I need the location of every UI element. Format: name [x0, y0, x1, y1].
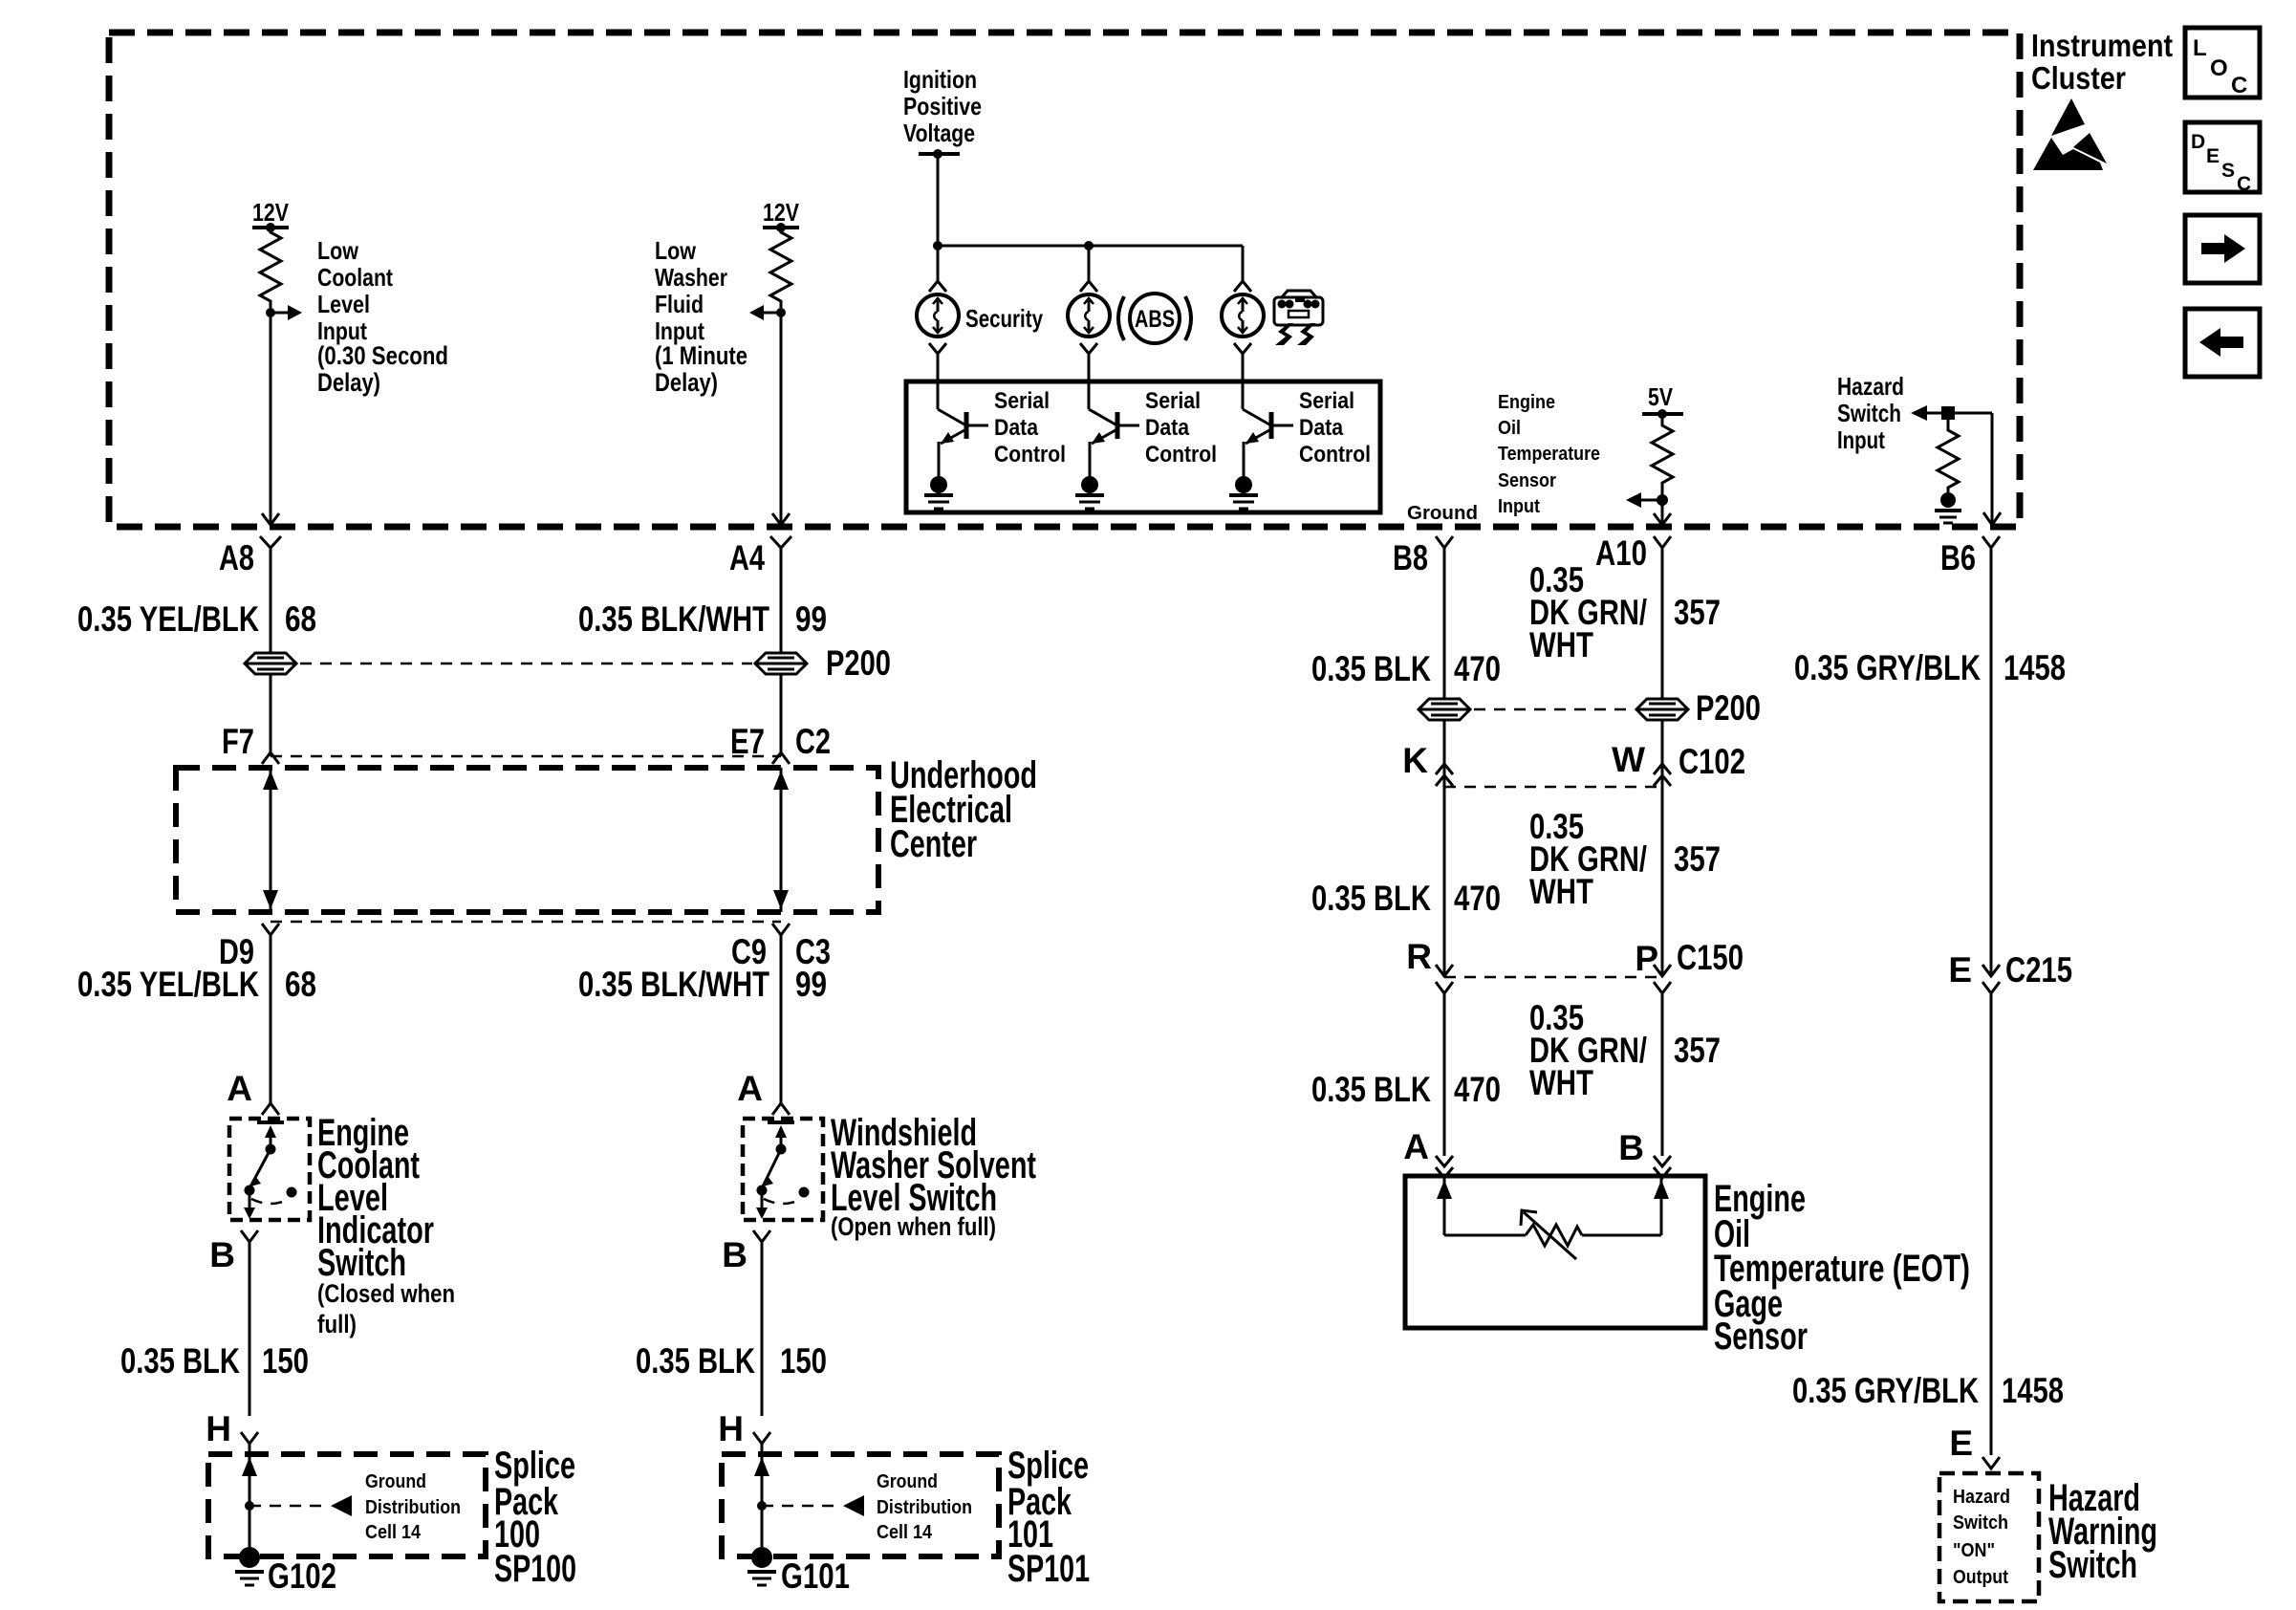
label: Engine Oil Temperature Sensor Input [1498, 392, 1600, 517]
svg-text:0.35 BLK: 0.35 BLK [120, 1341, 240, 1381]
svg-text:Serial: Serial [1145, 388, 1201, 414]
svg-text:Serial: Serial [1299, 388, 1354, 414]
svg-text:full): full) [317, 1310, 357, 1338]
svg-text:B6: B6 [1940, 538, 1976, 577]
node: low washer fluid input [749, 305, 786, 320]
svg-text:WHT: WHT [1529, 872, 1593, 911]
svg-text:0.35 GRY/BLK: 0.35 GRY/BLK [1792, 1371, 1979, 1410]
svg-text:Hazard: Hazard [1837, 372, 1904, 401]
svg-text:Switch: Switch [317, 1242, 406, 1284]
svg-text:L: L [2193, 35, 2207, 61]
svg-text:Level: Level [317, 290, 370, 318]
svg-text:Sensor: Sensor [1714, 1316, 1808, 1358]
svg-text:P200: P200 [1696, 688, 1761, 728]
dashed link P200 [300, 663, 752, 665]
svg-text:C: C [2237, 173, 2251, 195]
resistor (hazard pull-up) [1938, 413, 1959, 492]
svg-text:Coolant: Coolant [317, 263, 393, 292]
engine coolant level indicator switch box [229, 1119, 310, 1220]
label: Ignition Positive Voltage [903, 65, 982, 147]
pin A (coolant switch) [227, 1069, 279, 1115]
svg-text:Ground: Ground [1407, 503, 1478, 524]
wire: grommet to C102 (BLK) [1443, 720, 1446, 787]
label: Hazard Warning Switch [2048, 1477, 2157, 1586]
svg-text:68: 68 [285, 965, 316, 1004]
svg-text:Ground: Ground [365, 1471, 426, 1492]
pin E (hazard warning switch) [1949, 1424, 2000, 1469]
wire: C150 to EOT B (GRN) [1661, 993, 1664, 1156]
wire: lamp supply bus [933, 241, 1243, 250]
svg-text:B: B [1618, 1128, 1644, 1167]
svg-text:0.35 BLK/WHT: 0.35 BLK/WHT [578, 599, 769, 639]
connector C3 row (D9 / C9) [219, 922, 831, 971]
svg-text:Temperature: Temperature [1498, 444, 1600, 465]
label: Low Coolant Level Input [317, 236, 448, 397]
serial data control box [906, 381, 1380, 512]
svg-text:Ignition: Ignition [903, 65, 977, 94]
svg-text:Cell 14: Cell 14 [877, 1522, 933, 1543]
svg-text:D: D [2191, 131, 2205, 153]
wire: grommet to C102 (GRN) [1661, 720, 1664, 787]
svg-text:470: 470 [1454, 649, 1501, 688]
svg-text:Cluster: Cluster [2031, 60, 2126, 96]
wire: C102 to C150 (BLK) [1443, 787, 1446, 977]
svg-text:Control: Control [1145, 442, 1217, 468]
12V supply (coolant branch) [252, 198, 290, 232]
svg-text:357: 357 [1674, 593, 1721, 632]
wire: D9 to coolant switch [270, 935, 272, 1103]
label: serial data control 2 [1145, 388, 1217, 468]
svg-text:ABS: ABS [1135, 306, 1175, 333]
label: Splice Pack 101 SP101 [1007, 1445, 1090, 1590]
svg-text:Switch: Switch [1837, 399, 1901, 427]
svg-text:B8: B8 [1393, 538, 1428, 577]
svg-text:E: E [2206, 145, 2220, 167]
wire: 0.35 BLK/WHT 99 upper [780, 548, 783, 653]
connector B6 (cluster) [1940, 536, 2000, 577]
ground (ABS driver) [1075, 476, 1104, 509]
svg-text:Output: Output [1953, 1567, 2008, 1588]
washer switch internals [756, 1122, 810, 1219]
svg-text:1458: 1458 [2002, 1371, 2064, 1410]
svg-text:R: R [1406, 937, 1432, 976]
label: Splice Pack 100 SP100 [494, 1445, 576, 1590]
svg-text:357: 357 [1674, 839, 1721, 879]
svg-text:Low: Low [655, 236, 697, 265]
svg-text:99: 99 [795, 599, 827, 639]
label: 0.35 DK GRN/WHT 357 (3) [1529, 998, 1721, 1102]
svg-text:Instrument: Instrument [2031, 28, 2173, 63]
svg-text:Data: Data [1299, 415, 1344, 441]
resistor (low coolant pull-up) [260, 228, 281, 308]
coolant switch internals [244, 1122, 297, 1219]
engine oil temperature gage sensor box [1405, 1176, 1705, 1328]
instrument cluster label [2031, 28, 2173, 96]
svg-text:G101: G101 [781, 1556, 850, 1596]
node: EOT sensor input [1626, 492, 1668, 508]
svg-text:C150: C150 [1677, 938, 1744, 977]
ground (hazard pull-up) [1935, 492, 1961, 523]
label: Engine Oil Temperature (EOT) Gage Sensor [1714, 1178, 1970, 1358]
label: 0.35 YEL/BLK 68 lower [77, 965, 316, 1004]
svg-text:O: O [2210, 55, 2228, 81]
resistor (low washer pull-up) [770, 228, 791, 308]
hazard switch input node [1911, 405, 1992, 421]
label: Low Washer Fluid Input [655, 236, 747, 397]
transistor (security driver) [938, 409, 988, 477]
label: 0.35 GRY/BLK 1458 (1) [1794, 648, 2066, 687]
svg-text:(Open when full): (Open when full) [831, 1212, 996, 1241]
pin H (splice pack 100) [206, 1409, 258, 1448]
svg-text:12V: 12V [252, 198, 290, 227]
wire: B6 down to C215 [1990, 548, 1993, 976]
svg-text:12V: 12V [763, 198, 800, 227]
pin H (splice pack 101) [718, 1409, 770, 1448]
svg-text:Fluid: Fluid [655, 290, 704, 318]
svg-text:Distribution: Distribution [365, 1497, 461, 1518]
svg-text:470: 470 [1454, 1070, 1501, 1109]
connector A4 (cluster) [729, 536, 791, 577]
svg-text:Low: Low [317, 236, 359, 265]
label: Windshield Washer Solvent Level Switch [831, 1112, 1036, 1241]
connector C150 row (R / P) [1406, 937, 1744, 993]
transistor (traction driver) [1243, 409, 1293, 477]
svg-text:Hazard: Hazard [1953, 1487, 2010, 1508]
svg-text:Delay): Delay) [317, 368, 380, 397]
wire: traction lamp to transistor [1234, 343, 1251, 409]
connector B8 (cluster ground) [1393, 536, 1453, 577]
EOT sensor internals [1437, 1178, 1669, 1259]
svg-text:Serial: Serial [994, 388, 1050, 414]
svg-text:A: A [1403, 1127, 1429, 1166]
label: 0.35 BLK 150 (right) [636, 1341, 827, 1381]
resistor (EOT pull-up) [1652, 414, 1673, 495]
svg-text:Cell 14: Cell 14 [365, 1522, 422, 1543]
wire: 0.35 YEL/BLK 68 upper [270, 548, 272, 653]
pin A (EOT sensor) [1403, 1127, 1453, 1178]
ESD symbol [2033, 98, 2107, 170]
wire: A10 down [1661, 548, 1664, 699]
connector C2 row (F7 / E7) [222, 722, 831, 764]
12V supply (washer branch) [763, 198, 800, 232]
svg-text:W: W [1612, 740, 1645, 779]
svg-text:"ON": "ON" [1953, 1540, 1995, 1561]
label: 0.35 BLK 470 (3) [1311, 1070, 1501, 1109]
label: 0.35 BLK 470 (2) [1311, 879, 1501, 918]
svg-text:F7: F7 [222, 722, 254, 761]
label: 0.35 BLK 470 (1) [1311, 649, 1501, 688]
svg-text:A8: A8 [219, 538, 254, 577]
wire: hazard input to B6 [1983, 413, 2001, 525]
connector A10 (cluster) [1595, 533, 1671, 573]
svg-text:C: C [2231, 73, 2247, 98]
label: serial data control 3 [1299, 388, 1371, 468]
instrument cluster dashed box [109, 33, 2020, 527]
wire: drop to traction lamp [1234, 246, 1251, 292]
hazard warning switch dashed box [1939, 1473, 2039, 1601]
svg-text:WHT: WHT [1529, 1063, 1593, 1102]
svg-text:P200: P200 [826, 643, 891, 683]
svg-text:(1 Minute: (1 Minute [655, 341, 747, 370]
wire: drop to security lamp [929, 246, 946, 292]
wire: 0.35 BLK 150 (left) [249, 1242, 251, 1416]
svg-text:Oil: Oil [1498, 418, 1521, 439]
wire: ground B8 down [1443, 548, 1446, 699]
underhood electrical center dashed box [176, 768, 878, 912]
wire through UEC (right) [773, 768, 789, 912]
wire: C215 to hazard warning switch [1990, 993, 1993, 1455]
DESC legend box [2185, 122, 2260, 195]
svg-text:Engine: Engine [1498, 392, 1555, 413]
transistor (ABS driver) [1089, 409, 1139, 477]
svg-text:E: E [1948, 950, 1972, 990]
svg-text:A: A [227, 1069, 252, 1108]
indicator lamp (traction control) [1222, 294, 1264, 337]
svg-text:C215: C215 [2005, 950, 2072, 990]
svg-text:B: B [722, 1235, 747, 1274]
svg-text:Positive: Positive [903, 92, 982, 120]
label: 0.35 YEL/BLK 68 [77, 599, 316, 639]
svg-text:Data: Data [994, 415, 1039, 441]
svg-text:Control: Control [994, 442, 1066, 468]
wire: C150 to EOT A (BLK) [1443, 993, 1446, 1156]
svg-text:Sensor: Sensor [1498, 470, 1556, 491]
svg-text:357: 357 [1674, 1031, 1721, 1070]
svg-text:Input: Input [1837, 425, 1885, 454]
wire through UEC (left) [263, 768, 278, 912]
svg-text:0.35 BLK: 0.35 BLK [1311, 649, 1431, 688]
ground G102 [235, 1547, 336, 1596]
pin A (washer switch) [737, 1069, 790, 1115]
svg-text:Distribution: Distribution [877, 1497, 972, 1518]
svg-text:Switch: Switch [1953, 1512, 2008, 1534]
traction control car icon [1274, 291, 1323, 345]
ground G101 [747, 1547, 850, 1596]
svg-text:0.35 YEL/BLK: 0.35 YEL/BLK [77, 965, 259, 1004]
splice pack 101 dashed box [722, 1454, 999, 1556]
5V supply [1642, 382, 1683, 419]
label: Ground Distribution Cell 14 (left) [365, 1471, 461, 1543]
svg-text:A: A [737, 1069, 763, 1108]
wire: coolant input to A8 [262, 313, 279, 525]
svg-text:Control: Control [1299, 442, 1371, 468]
label: Underhood Electrical Center [890, 754, 1037, 865]
ABS icon [1118, 294, 1191, 343]
svg-text:0.35 YEL/BLK: 0.35 YEL/BLK [77, 599, 259, 639]
svg-text:1458: 1458 [2004, 648, 2066, 687]
svg-text:0.35 BLK: 0.35 BLK [1311, 879, 1431, 918]
svg-text:(0.30 Second: (0.30 Second [317, 341, 448, 370]
splice pack 100 dashed box [208, 1454, 486, 1556]
svg-text:E: E [1949, 1424, 1973, 1463]
svg-text:H: H [718, 1409, 744, 1448]
svg-text:K: K [1402, 741, 1428, 780]
svg-text:150: 150 [780, 1341, 827, 1381]
pin B (coolant switch) [209, 1230, 258, 1274]
svg-text:0.35 BLK: 0.35 BLK [636, 1341, 755, 1381]
wire: C102 to C150 (GRN) [1661, 787, 1664, 977]
wire: A8 drop to F7 [270, 674, 272, 756]
svg-text:S: S [2221, 160, 2235, 182]
indicator lamp (security) [917, 294, 959, 337]
svg-text:99: 99 [795, 965, 827, 1004]
label: 0.35 DK GRN/WHT 357 (2) [1529, 807, 1721, 911]
ignition positive voltage node [919, 149, 960, 159]
pass-through grommet P200 (wire 99) [755, 653, 807, 674]
ground (security driver) [924, 476, 953, 509]
label: Hazard Switch ON Output [1953, 1487, 2010, 1588]
left-arrow legend box [2185, 309, 2260, 377]
wire: ABS lamp to transistor [1080, 343, 1097, 409]
svg-text:Voltage: Voltage [903, 119, 975, 147]
indicator lamp (ABS) [1068, 294, 1110, 337]
ground (traction driver) [1229, 476, 1258, 509]
svg-text:H: H [206, 1409, 231, 1448]
right-arrow legend box [2185, 215, 2260, 283]
svg-text:68: 68 [285, 599, 316, 639]
svg-text:5V: 5V [1648, 382, 1674, 411]
svg-text:(Closed when: (Closed when [317, 1279, 455, 1308]
connector A8 (cluster) [219, 536, 281, 577]
svg-text:SP101: SP101 [1007, 1548, 1090, 1590]
wire: washer input to A4 [772, 313, 790, 525]
label: 0.35 DK GRN/WHT 357 (1) [1529, 560, 1721, 664]
svg-text:Input: Input [1498, 496, 1540, 517]
label: 0.35 GRY/BLK 1458 (2) [1792, 1371, 2064, 1410]
svg-text:B: B [209, 1235, 235, 1274]
splice pack 101 internals [754, 1444, 864, 1557]
wire: security lamp to transistor [929, 343, 946, 409]
connector C215 row (E) [1948, 950, 2072, 993]
label: serial data control 1 [994, 388, 1066, 468]
svg-text:0.35 GRY/BLK: 0.35 GRY/BLK [1794, 648, 1981, 687]
pin B (EOT sensor) [1618, 1128, 1671, 1178]
label: Ground Distribution Cell 14 (right) [877, 1471, 972, 1543]
pin B (washer switch) [722, 1230, 770, 1274]
connector C102 row (K / W) [1402, 740, 1745, 787]
pass-through grommet P200 (wire 68) [245, 653, 296, 674]
wire: C9 to washer switch [780, 935, 783, 1103]
splice pack 100 internals [242, 1444, 352, 1557]
svg-text:A4: A4 [729, 538, 765, 577]
svg-text:Switch: Switch [2048, 1544, 2137, 1586]
svg-text:Data: Data [1145, 415, 1190, 441]
svg-text:P: P [1635, 939, 1658, 978]
LOC legend box [2185, 28, 2260, 98]
svg-text:WHT: WHT [1529, 625, 1593, 664]
svg-text:Delay): Delay) [655, 368, 718, 397]
label: Engine Coolant Level Indicator Switch [317, 1112, 455, 1338]
wire: A4 drop to E7 [780, 674, 783, 756]
svg-text:Washer: Washer [655, 263, 727, 292]
svg-text:G102: G102 [268, 1556, 336, 1596]
node: low coolant level input [266, 305, 302, 320]
svg-text:470: 470 [1454, 879, 1501, 918]
wire: drop to ABS lamp [1080, 246, 1097, 292]
label: Hazard Switch Input [1837, 372, 1904, 454]
wire: 0.35 BLK 150 (right) [761, 1242, 764, 1416]
svg-text:C2: C2 [795, 722, 831, 761]
dashed link P200 (right) [1474, 708, 1634, 711]
svg-text:C102: C102 [1679, 742, 1745, 781]
wire: EOT input to A10 [1654, 500, 1671, 525]
label: 0.35 BLK 150 (left) [120, 1341, 309, 1381]
svg-text:SP100: SP100 [494, 1548, 576, 1590]
pass-through grommet P200 (wire 470) [1419, 699, 1470, 720]
svg-text:Ground: Ground [877, 1471, 938, 1492]
svg-text:Center: Center [890, 823, 977, 865]
svg-text:0.35 BLK: 0.35 BLK [1311, 1070, 1431, 1109]
pass-through grommet P200 (wire 357) [1636, 699, 1688, 720]
svg-text:Security: Security [965, 304, 1043, 333]
svg-text:150: 150 [262, 1341, 309, 1381]
windshield washer solvent level switch box [743, 1119, 823, 1220]
svg-text:0.35 BLK/WHT: 0.35 BLK/WHT [578, 965, 769, 1004]
svg-text:A10: A10 [1595, 533, 1647, 573]
wire: ignition feed down [937, 154, 940, 246]
label: 0.35 BLK/WHT 99 [578, 599, 827, 639]
label: 0.35 BLK/WHT 99 lower [578, 965, 827, 1004]
